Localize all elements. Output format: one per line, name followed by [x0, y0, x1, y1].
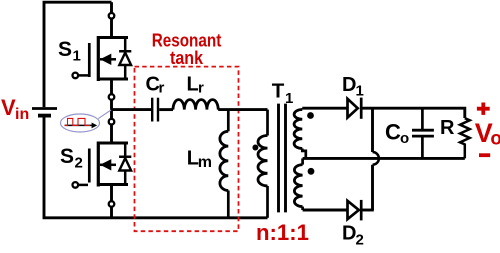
svg-text:o: o	[490, 129, 500, 150]
svg-text:o: o	[400, 130, 409, 147]
node circle S2 source	[109, 201, 115, 207]
callout square wave	[65, 118, 91, 125]
svg-text:C: C	[385, 120, 401, 145]
wire S2 source to bottom rail	[110, 207, 113, 218]
transformer secondary bottom winding	[301, 158, 304, 164]
center tap wire to output bottom	[303, 157, 465, 160]
secondary top dot	[307, 112, 314, 119]
wire midpoint to Cr	[112, 108, 152, 111]
diode D1	[348, 98, 362, 119]
wire S2 source down	[110, 185, 113, 202]
node circle S2 drain	[109, 119, 115, 125]
wire Lr to primary	[218, 108, 267, 111]
resistor R zigzag	[460, 118, 470, 158]
svg-text:n:1:1: n:1:1	[256, 220, 309, 245]
svg-text:S: S	[58, 38, 72, 61]
svg-text:D: D	[342, 223, 356, 245]
wire D1 to output top rail corner	[361, 108, 465, 118]
wire left rail lower + bottom rail	[44, 117, 268, 218]
svg-text:1: 1	[356, 83, 364, 100]
svg-text:2: 2	[356, 231, 364, 248]
wire Cr to Lr	[159, 108, 173, 111]
wire rectified link upper	[371, 108, 374, 152]
wire D2 to vertical link	[361, 209, 374, 212]
svg-text:r: r	[159, 79, 165, 96]
inductor Lm branch	[227, 110, 230, 132]
diode D2	[348, 200, 362, 221]
svg-text:L: L	[187, 74, 199, 96]
svg-text:D: D	[342, 74, 356, 96]
label - output minus	[479, 153, 490, 157]
wire secondary bottom to D2	[303, 209, 348, 212]
wire top rail	[44, 2, 112, 107]
primary dot	[252, 145, 258, 151]
wire S1 drain from top rail	[110, 2, 113, 13]
wire midpoint node	[110, 100, 113, 119]
wire secondary top to D1	[302, 107, 347, 110]
transistor S1	[73, 36, 132, 81]
transformer T1 primary winding	[266, 110, 269, 136]
secondary bottom dot	[308, 168, 315, 175]
wire S1 source down	[110, 79, 113, 94]
label + output plus	[477, 103, 490, 115]
resonant tank dashed box	[135, 67, 239, 232]
svg-text:m: m	[198, 154, 212, 171]
capacitor Co	[412, 108, 434, 158]
transistor S2	[73, 142, 132, 188]
node circle S1 source	[109, 94, 115, 100]
capacitor Cr	[152, 98, 158, 122]
svg-text:T: T	[272, 80, 285, 103]
inductor Lr	[173, 100, 218, 110]
svg-text:tank: tank	[170, 48, 204, 68]
svg-text:V: V	[1, 95, 16, 120]
wire node to S1 drain	[110, 19, 113, 38]
transformer core	[279, 104, 286, 213]
svg-text:1: 1	[73, 48, 81, 65]
wire S2 drain down	[110, 125, 113, 145]
callout leader line	[98, 110, 111, 119]
svg-text:2: 2	[75, 155, 83, 172]
svg-text:r: r	[198, 79, 204, 96]
transformer secondary top winding	[294, 110, 302, 149]
wire hop over center tap	[373, 152, 379, 165]
callout arrow axis	[65, 124, 93, 126]
svg-text:in: in	[15, 106, 29, 123]
svg-text:S: S	[60, 145, 74, 168]
node circle S1 drain	[109, 13, 115, 19]
svg-text:1: 1	[285, 90, 293, 107]
wire rectified link lower	[371, 165, 374, 210]
voltage source battery Vin	[32, 109, 57, 116]
svg-text:R: R	[440, 117, 455, 139]
callout ellipse square-wave	[61, 114, 100, 132]
